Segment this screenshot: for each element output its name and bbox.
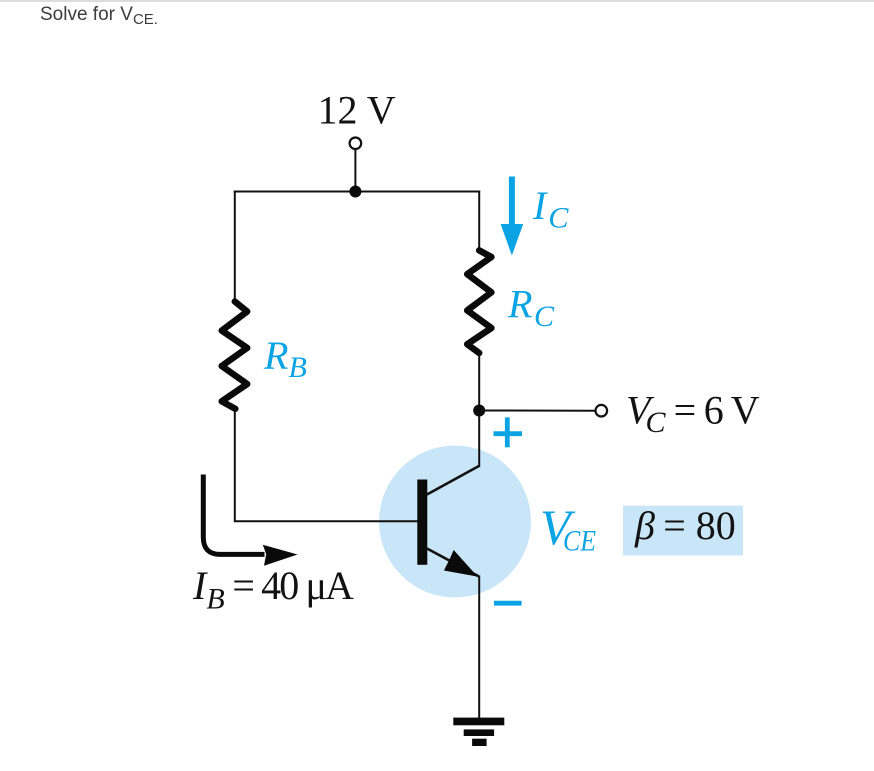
svg-text:IB= 40 μA: IB= 40 μA	[192, 563, 354, 616]
node dot collector	[473, 405, 485, 417]
beta highlight box	[623, 506, 743, 556]
current arrow IC	[501, 177, 524, 256]
label VCE	[540, 499, 596, 558]
label IB = 40 uA	[192, 563, 354, 616]
svg-text:12 V: 12 V	[318, 88, 396, 133]
label RC	[507, 282, 555, 334]
transistor emitter lead	[427, 549, 479, 577]
wire top rail	[234, 191, 480, 193]
supply terminal circle	[350, 138, 362, 150]
svg-text:VCE: VCE	[540, 499, 596, 558]
svg-text:RB: RB	[263, 333, 307, 384]
resistor RC	[467, 250, 491, 353]
svg-text:IC: IC	[532, 183, 569, 235]
label RB	[263, 333, 307, 384]
label 12 V	[318, 88, 396, 133]
transistor Q1 highlight circle	[379, 446, 531, 598]
wire left branch lower	[234, 411, 236, 521]
transistor base bar	[417, 480, 427, 565]
label IC	[532, 183, 569, 235]
svg-text:VC= 6 V: VC= 6 V	[626, 388, 760, 440]
junction dot supply node	[349, 186, 361, 198]
VC terminal circle	[596, 405, 608, 417]
ground	[453, 718, 504, 746]
minus sign	[494, 601, 522, 606]
plus sign	[494, 417, 523, 447]
title text	[40, 4, 158, 26]
transistor collector lead	[427, 466, 480, 495]
base current hook arrow IB	[203, 475, 297, 566]
wire emitter down	[478, 576, 480, 719]
label beta = 80	[634, 503, 736, 548]
svg-text:RC: RC	[507, 282, 555, 334]
wire collector branch	[478, 355, 480, 467]
label VC = 6 V	[626, 388, 760, 440]
svg-text:β= 80: β= 80	[634, 503, 736, 548]
emitter arrowhead	[444, 550, 478, 577]
top divider line	[0, 0, 874, 2]
wire base	[234, 520, 418, 522]
wire left branch upper	[234, 191, 236, 300]
wire supply stub	[354, 149, 356, 192]
wire right branch upper	[478, 191, 480, 249]
resistor RB	[222, 302, 248, 409]
wire VC stub	[479, 410, 595, 412]
